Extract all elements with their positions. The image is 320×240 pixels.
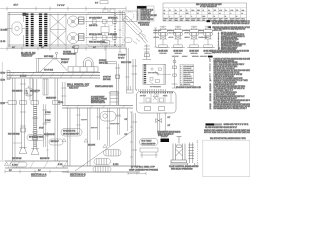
svg-text:CL EXIST: CL EXIST xyxy=(199,32,205,34)
svg-text:SPEC NOTE: SPEC NOTE xyxy=(200,56,207,58)
bill of materials header bar xyxy=(137,6,147,9)
svg-text:MIN 2: MIN 2 xyxy=(197,20,201,22)
pump discharge flange stack upper xyxy=(79,17,85,24)
equipment pad label box above plan xyxy=(100,1,115,12)
gate frame side view flanged column xyxy=(187,142,195,166)
plan bottom dimension line xyxy=(7,47,126,51)
svg-text:EL 740: EL 740 xyxy=(1,41,6,43)
wet well plan box xyxy=(143,64,166,84)
svg-text:MIN 4" 12": MIN 4" 12" xyxy=(140,95,147,97)
gooseneck base leader xyxy=(49,56,56,61)
label box MCC near elbow xyxy=(101,41,110,62)
leader to left margin text xyxy=(5,28,25,30)
wet well leader to pump figure xyxy=(160,74,172,76)
svg-text:NEW INV SHT: NEW INV SHT xyxy=(184,76,192,78)
svg-text:RPM: RPM xyxy=(242,9,245,11)
slab hatch xyxy=(10,72,94,78)
svg-text:1160: 1160 xyxy=(203,15,206,17)
revision tag black bar xyxy=(206,123,215,125)
suction pipe fittings xyxy=(77,115,121,128)
svg-text:DET EL: DET EL xyxy=(163,95,168,97)
cross bracing mid rail xyxy=(50,29,66,31)
svg-text:IN: IN xyxy=(203,9,204,11)
svg-text:6'-0": 6'-0" xyxy=(12,47,15,49)
pump volute stadium in section xyxy=(100,112,121,122)
svg-text:EL 727.5: EL 727.5 xyxy=(113,164,119,166)
svg-text:EL 741.50: EL 741.50 xyxy=(20,75,27,77)
svg-text:GPM: GPM xyxy=(219,9,222,11)
svg-text:RPM: RPM xyxy=(192,9,195,11)
svg-text:IN: IN xyxy=(169,9,170,11)
warning triangle floor xyxy=(5,162,9,166)
valve assembly figure 4 xyxy=(201,26,215,47)
svg-text:SHT STL: SHT STL xyxy=(169,37,174,39)
floor slab middle section xyxy=(62,166,140,172)
gooseneck vent arc xyxy=(84,58,94,67)
svg-text:EL DET INV: EL DET INV xyxy=(161,136,168,138)
svg-text:36" SHT TOP: 36" SHT TOP xyxy=(103,77,111,79)
left extension line of section xyxy=(1,62,3,160)
small valve on riser A xyxy=(21,128,26,132)
svg-text:26'-8": 26'-8" xyxy=(14,5,19,7)
cross bracing X lower xyxy=(50,31,66,46)
drop pipe dim ticks xyxy=(164,113,167,131)
svg-text:NO: NO xyxy=(225,9,227,11)
svg-text:SST: SST xyxy=(164,20,167,22)
influent channel dark hatch bar 2 xyxy=(44,14,47,47)
hoist dashed circle xyxy=(125,12,133,20)
svg-text:TYP: TYP xyxy=(214,9,217,11)
panel schedule box xyxy=(180,65,194,86)
warning triangle left xyxy=(62,138,66,141)
davit boom lower continuation xyxy=(139,33,148,44)
intermediate pier caps xyxy=(0,101,60,104)
pump no.1 circle with cross xyxy=(67,16,78,27)
svg-text:EL 740: EL 740 xyxy=(1,80,6,82)
floor slab hatch A xyxy=(8,161,67,168)
svg-text:TYP 8": TYP 8" xyxy=(199,30,203,32)
svg-text:REQD: REQD xyxy=(191,20,195,22)
section A dim line xyxy=(5,170,68,173)
callout stadium above bell A xyxy=(27,135,44,141)
piping run upper in canopy xyxy=(85,20,122,24)
left stadium callout mid section xyxy=(61,129,82,137)
svg-text:1750: 1750 xyxy=(186,12,189,14)
slab plan left wall lines xyxy=(10,13,24,48)
valve assembly figure 3 xyxy=(187,26,201,47)
svg-text:240: 240 xyxy=(175,12,177,14)
boom base valve assembly xyxy=(143,44,152,60)
svg-text:9'-6": 9'-6" xyxy=(114,34,117,36)
title block border xyxy=(203,140,250,177)
drop pipe arrow xyxy=(157,131,160,134)
wet well floor slab section A xyxy=(5,161,68,168)
riser pipe B bellmouth xyxy=(31,149,39,155)
warning triangle mid 2 xyxy=(103,144,107,147)
svg-text:SST: SST xyxy=(169,20,172,22)
riser pipe A bellmouth xyxy=(19,148,26,154)
wet well left hatched wall xyxy=(144,65,146,84)
svg-text:WALL PENETR. DET: WALL PENETR. DET xyxy=(67,83,90,86)
svg-text:DET NOTE: DET NOTE xyxy=(172,56,178,58)
vertical dimension line left of hoist xyxy=(119,11,122,52)
vent pedestal xyxy=(68,67,98,72)
slab left end cap xyxy=(7,71,10,80)
meter vault interior piping xyxy=(139,92,174,104)
hatched stadium callout 2 xyxy=(94,159,111,165)
svg-text:PIPE EL SST TOP 4" FLG PLUG 24: PIPE EL SST TOP 4" FLG PLUG 24" xyxy=(214,68,236,70)
svg-text:8'-0": 8'-0" xyxy=(93,47,96,49)
gate plan small figure xyxy=(140,148,158,158)
left pipe drop below vault xyxy=(132,113,138,167)
bottom small dim line xyxy=(128,172,146,175)
svg-text:CL SPEC PLUG 8" 6" SEE TOP MIN: CL SPEC PLUG 8" 6" SEE TOP MIN xyxy=(214,94,235,96)
wet well right pipe cap at deck xyxy=(127,86,134,93)
sloped invert line xyxy=(75,131,133,172)
riser pipe B with ladder rungs xyxy=(34,79,37,150)
cross bracing X upper xyxy=(50,15,66,30)
wall pier mid below slab xyxy=(30,78,33,101)
svg-text:36" DIP: 36" DIP xyxy=(39,128,44,130)
svg-text:NO: NO xyxy=(175,9,177,11)
schedule table grid xyxy=(163,8,247,21)
canopy dashed rounded outline xyxy=(87,13,124,47)
svg-text:5'-6": 5'-6" xyxy=(41,47,44,49)
svg-text:APPR BY RGM CHK DLH DES KWS DW: APPR BY RGM CHK DLH DES KWS DWN JMC DATE… xyxy=(204,131,250,134)
svg-text:EL 728.0: EL 728.0 xyxy=(12,165,18,167)
svg-text:BOLT CONC REQD: BOLT CONC REQD xyxy=(8,134,20,136)
suction pipes below deck xyxy=(78,108,128,146)
callout stadium above bell B xyxy=(49,139,63,145)
hatched stadium callout 3 in slab xyxy=(93,167,111,173)
riser flange ticks xyxy=(20,84,38,132)
blade gate frame elevation xyxy=(170,137,188,165)
canopy right dotted wall xyxy=(114,14,116,47)
piping run lower in canopy xyxy=(85,36,122,40)
svg-text:SECTION A-A: SECTION A-A xyxy=(31,173,47,176)
svg-text:REQD DWG 12" W/ SEE 12" DET W/: REQD DWG 12" W/ SEE 12" DET W/ CL STL xyxy=(212,52,239,54)
svg-text:EL 738: EL 738 xyxy=(1,103,5,105)
riser pipe A xyxy=(22,79,25,149)
stair treads on boom xyxy=(133,34,146,45)
svg-text:1750: 1750 xyxy=(208,12,211,14)
davit boom slanted member xyxy=(123,16,142,35)
bill of materials table body xyxy=(137,6,154,21)
valve assembly figure 2 xyxy=(171,26,185,47)
svg-text:SPEC DIP: SPEC DIP xyxy=(185,30,191,32)
svg-text:DET STL: DET STL xyxy=(58,102,64,104)
upper deck slab middle section xyxy=(62,105,133,108)
main slab beam elevation xyxy=(7,72,100,78)
svg-text:MJ 6: MJ 6 xyxy=(202,20,205,22)
svg-text:SPEC PLUG DWG TYP: SPEC PLUG DWG TYP xyxy=(142,143,156,145)
svg-text:TOP 24" 4": TOP 24" 4" xyxy=(118,57,125,59)
floor stadium callout xyxy=(10,162,27,167)
svg-text:9'-2": 9'-2" xyxy=(72,47,75,49)
NOTES header bar xyxy=(208,56,213,58)
svg-text:MIN 2: MIN 2 xyxy=(175,20,179,22)
influent channel dark hatch bar 1 xyxy=(39,14,42,47)
hoist support rect xyxy=(123,11,138,22)
svg-text:WITH ELEC OPERATORS: WITH ELEC OPERATORS xyxy=(171,168,193,171)
svg-text:24" NEW 4": 24" NEW 4" xyxy=(61,62,69,64)
wall pier right below slab xyxy=(55,78,58,161)
long vertical pipe pair left of wet well xyxy=(125,48,130,90)
davit mast triangle elevation xyxy=(39,52,68,72)
future pump dashed circle lower xyxy=(107,34,115,42)
valve figure dim line xyxy=(154,28,157,47)
valve bowtie on drop pipe xyxy=(156,119,162,123)
small valve on elbow drop xyxy=(115,75,119,78)
meter vault warning triangle xyxy=(154,93,158,96)
bar screen hatched column pair 1a xyxy=(26,14,29,47)
svg-text:GPM: GPM xyxy=(230,9,233,11)
cross bracing bay lines xyxy=(50,14,66,47)
legend tag mark xyxy=(208,27,211,29)
svg-text:7'-4" 9'-0": 7'-4" 9'-0" xyxy=(57,5,65,7)
svg-text:SIZE: SIZE xyxy=(197,9,200,11)
svg-text:DET NOTE STL: DET NOTE STL xyxy=(108,18,118,20)
svg-text:EL 728: EL 728 xyxy=(58,164,62,166)
pipe pair from slab to deck at x63 xyxy=(61,82,66,105)
bar screen hatched column pair 1b xyxy=(31,14,34,47)
slab plan outline xyxy=(8,13,125,48)
table caption black tag xyxy=(207,20,210,22)
svg-text:EL 742: EL 742 xyxy=(1,73,6,75)
svg-text:TYP SHT INV: TYP SHT INV xyxy=(63,51,71,53)
svg-text:TYP: TYP xyxy=(236,9,239,11)
screen octagon xyxy=(12,22,22,35)
future pump dashed circle upper xyxy=(107,18,115,26)
svg-text:W/ DWG: W/ DWG xyxy=(185,32,190,34)
pipe from boom base down to wet well xyxy=(132,59,138,90)
svg-text:EL 734.5: EL 734.5 xyxy=(45,120,51,122)
davit dim ticks xyxy=(36,59,42,73)
svg-text:3'-6": 3'-6" xyxy=(95,2,99,4)
svg-text:PIPE SEE INV: PIPE SEE INV xyxy=(184,68,192,70)
svg-text:PLUG 36" 8": PLUG 36" 8" xyxy=(184,74,191,76)
riser pipe C xyxy=(42,104,47,147)
svg-text:EXIST 8": EXIST 8" xyxy=(154,32,159,34)
pump discharge flange stack lower xyxy=(79,34,85,41)
svg-text:SECTION B-B: SECTION B-B xyxy=(70,173,86,176)
canopy center equipment box xyxy=(101,24,109,36)
svg-text:REQD: REQD xyxy=(186,20,190,22)
svg-text:EL EL: EL EL xyxy=(169,30,173,32)
warning triangle mid 1 xyxy=(84,139,88,142)
hatched stadium callout 1 xyxy=(104,150,122,157)
meter vault rounded outline xyxy=(137,92,177,114)
svg-text:EXIST SST: EXIST SST xyxy=(91,127,98,129)
dimension line top of slab plan xyxy=(7,7,126,11)
schedule table outline xyxy=(163,3,247,21)
deck hatch middle xyxy=(66,105,125,108)
pipe sleeve hanging below slab xyxy=(43,79,48,95)
wet well internal details xyxy=(149,68,161,84)
deck support walls below xyxy=(68,108,91,166)
svg-text:NEW 12" SEE: NEW 12" SEE xyxy=(99,63,108,65)
meter vault top hatch xyxy=(140,92,173,94)
svg-text:MJ 6: MJ 6 xyxy=(180,20,183,22)
gate stadium callout xyxy=(140,139,159,146)
svg-text:EL SPEC 6" SST: EL SPEC 6" SST xyxy=(141,17,151,19)
svg-text:CAMP LEJEUNE PS4 UPGRADE: CAMP LEJEUNE PS4 UPGRADE xyxy=(129,169,159,172)
svg-text:DET PIPE: DET PIPE xyxy=(154,37,160,39)
elbow pipe from plan down to deck xyxy=(104,62,121,106)
svg-text:SHT FLG EXIST MIN SPEC PUMP TO: SHT FLG EXIST MIN SPEC PUMP TOP STL xyxy=(214,72,240,74)
pump no.2 circle with cross xyxy=(67,32,78,43)
meter vault bottom fittings xyxy=(145,107,165,111)
svg-text:1% SLOPE: 1% SLOPE xyxy=(88,144,95,146)
svg-text:36" FCV NO 1 THRU 4 TYP: 36" FCV NO 1 THRU 4 TYP xyxy=(131,165,156,168)
section A extra ticks xyxy=(13,95,49,158)
drop pipe below meter vault xyxy=(158,113,160,134)
svg-text:EX SCRN: EX SCRN xyxy=(1,29,8,31)
gate dim dashed line xyxy=(196,140,198,165)
dark block top of screen channel xyxy=(23,13,27,16)
hatched strip below wet well xyxy=(137,89,168,91)
revision tag grey box xyxy=(215,123,222,125)
valve assembly figure 1 xyxy=(156,26,170,47)
pipe stub cluster above vent xyxy=(74,46,79,67)
black solid tag rect xyxy=(161,139,170,143)
small valve on riser B xyxy=(33,136,38,140)
callout stadium below slab xyxy=(25,86,34,96)
svg-text:VENTILATION DET.: VENTILATION DET. xyxy=(95,85,114,88)
boom stadium callout xyxy=(125,38,133,43)
wall pier left below slab xyxy=(13,78,16,161)
svg-text:4" PLUG DIP: 4" PLUG DIP xyxy=(118,55,126,57)
svg-text:EL 736.0: EL 736.0 xyxy=(45,112,51,114)
meter riser flange stack on deck xyxy=(109,92,119,106)
svg-text:NO: NO xyxy=(208,9,210,11)
right vertical dimension line mid section xyxy=(130,112,133,170)
svg-text:SHT PIPE 36": SHT PIPE 36" xyxy=(51,141,60,143)
svg-text:REQD NEW BOLT: REQD NEW BOLT xyxy=(184,72,194,74)
svg-text:NEW 24" CL: NEW 24" CL xyxy=(184,84,191,86)
left margin tick marks xyxy=(0,9,7,162)
vertical pump section small figure xyxy=(172,57,178,88)
